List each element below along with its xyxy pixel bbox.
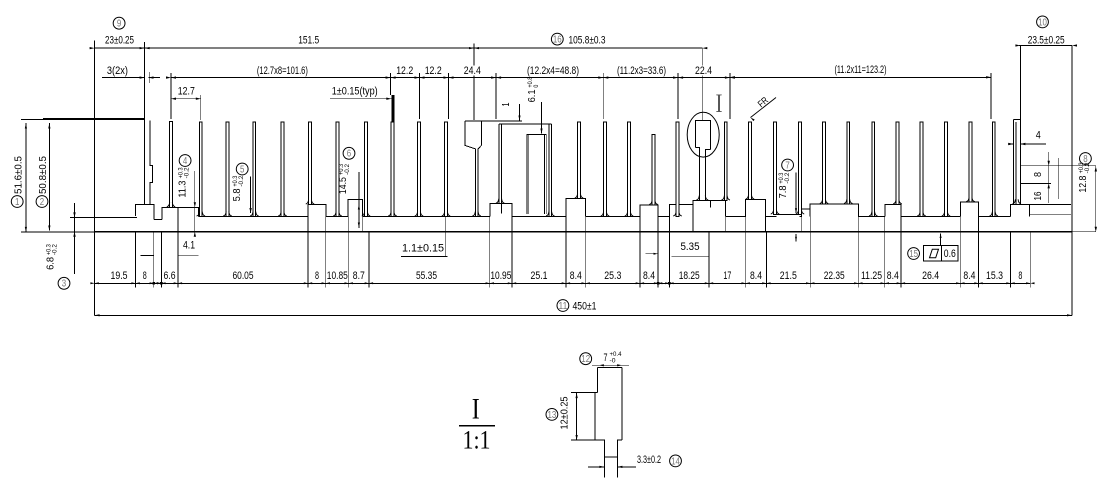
- svg-text:-0.2: -0.2: [238, 175, 245, 186]
- svg-text:10.95: 10.95: [490, 270, 511, 282]
- svg-text:24.4: 24.4: [464, 65, 481, 77]
- svg-text:-0: -0: [610, 357, 616, 364]
- svg-text:15: 15: [909, 249, 918, 260]
- svg-text:55.35: 55.35: [416, 270, 437, 282]
- svg-text:8.4: 8.4: [570, 270, 582, 282]
- svg-text:11.25: 11.25: [861, 270, 882, 282]
- svg-text:10.85: 10.85: [327, 270, 348, 282]
- svg-text:-0.2: -0.2: [344, 163, 351, 174]
- svg-text:I: I: [716, 89, 723, 118]
- svg-text:-0.2: -0.2: [51, 244, 58, 255]
- svg-text:-0.2: -0.2: [784, 172, 791, 183]
- svg-text:18.25: 18.25: [679, 270, 700, 282]
- svg-text:22.35: 22.35: [824, 270, 845, 282]
- svg-text:151.5: 151.5: [298, 34, 319, 46]
- svg-text:(12.7x8=101.6): (12.7x8=101.6): [257, 65, 308, 77]
- svg-text:3: 3: [62, 279, 67, 290]
- svg-text:8: 8: [1032, 172, 1044, 177]
- svg-text:I: I: [472, 393, 480, 426]
- svg-text:16: 16: [553, 35, 562, 46]
- svg-text:8.4: 8.4: [963, 270, 975, 282]
- svg-text:3.3±0.2: 3.3±0.2: [637, 454, 661, 466]
- svg-text:13: 13: [548, 410, 557, 421]
- svg-text:51.6±0.5: 51.6±0.5: [13, 156, 25, 194]
- svg-text:11: 11: [559, 301, 568, 312]
- svg-text:16: 16: [1032, 191, 1044, 200]
- svg-text:3(2x): 3(2x): [107, 65, 128, 77]
- svg-text:4: 4: [1036, 130, 1041, 142]
- svg-text:12.8: 12.8: [1077, 175, 1089, 192]
- svg-text:8: 8: [1018, 270, 1022, 282]
- svg-text:17: 17: [723, 270, 731, 282]
- svg-text:5.8: 5.8: [231, 188, 243, 201]
- svg-text:12.2: 12.2: [425, 65, 442, 77]
- svg-text:(12.2x4=48.8): (12.2x4=48.8): [527, 65, 579, 77]
- svg-text:5.35: 5.35: [681, 241, 700, 253]
- svg-text:1: 1: [15, 197, 19, 208]
- svg-text:60.05: 60.05: [233, 270, 254, 282]
- svg-text:6.8: 6.8: [45, 257, 57, 270]
- svg-text:50.8±0.5: 50.8±0.5: [37, 156, 49, 194]
- svg-text:8: 8: [315, 270, 319, 282]
- svg-text:6.6: 6.6: [164, 270, 176, 282]
- svg-text:7: 7: [785, 160, 789, 171]
- svg-text:1.1±0.15: 1.1±0.15: [402, 243, 444, 255]
- svg-text:7: 7: [604, 352, 608, 364]
- svg-text:23±0.25: 23±0.25: [105, 34, 134, 46]
- svg-text:0.6: 0.6: [944, 248, 956, 260]
- svg-text:8.4: 8.4: [750, 270, 762, 282]
- svg-text:7.8: 7.8: [777, 185, 789, 198]
- svg-text:25.3: 25.3: [604, 270, 621, 282]
- svg-text:105.8±0.3: 105.8±0.3: [569, 35, 606, 47]
- svg-text:11.3: 11.3: [177, 180, 189, 197]
- svg-text:4.1: 4.1: [183, 240, 195, 252]
- svg-text:12±0.25: 12±0.25: [559, 396, 571, 429]
- svg-text:10: 10: [1038, 17, 1047, 28]
- svg-text:(11.2x11=123.2): (11.2x11=123.2): [835, 64, 887, 76]
- svg-text:6.1: 6.1: [526, 89, 538, 102]
- svg-text:-0.2: -0.2: [1084, 162, 1091, 173]
- svg-text:8.4: 8.4: [887, 270, 899, 282]
- svg-text:19.5: 19.5: [111, 270, 128, 282]
- svg-text:25.1: 25.1: [531, 270, 548, 282]
- svg-text:12.7: 12.7: [178, 85, 195, 97]
- svg-text:(11.2x3=33.6): (11.2x3=33.6): [617, 65, 666, 77]
- svg-text:21.5: 21.5: [780, 270, 797, 282]
- svg-text:8.4: 8.4: [643, 270, 655, 282]
- svg-text:0: 0: [533, 84, 540, 87]
- svg-text:12: 12: [581, 354, 590, 365]
- svg-text:22.4: 22.4: [695, 65, 712, 77]
- svg-text:6: 6: [347, 149, 352, 160]
- svg-text:8: 8: [143, 270, 147, 282]
- svg-text:5: 5: [240, 164, 245, 175]
- svg-text:1±0.15(typ): 1±0.15(typ): [332, 85, 378, 97]
- svg-text:1: 1: [500, 102, 512, 106]
- svg-text:14.5: 14.5: [337, 177, 349, 194]
- svg-text:1:1: 1:1: [463, 426, 491, 455]
- svg-text:15.3: 15.3: [986, 270, 1003, 282]
- svg-text:26.4: 26.4: [922, 270, 939, 282]
- svg-text:2: 2: [40, 197, 44, 208]
- svg-text:9: 9: [117, 19, 121, 30]
- svg-text:12.2: 12.2: [396, 65, 413, 77]
- svg-text:14: 14: [671, 456, 680, 467]
- svg-text:450±1: 450±1: [573, 301, 597, 313]
- svg-text:4: 4: [183, 156, 188, 167]
- svg-text:-0.2: -0.2: [183, 167, 190, 178]
- svg-text:23.5±0.25: 23.5±0.25: [1028, 34, 1065, 46]
- svg-text:8.7: 8.7: [353, 270, 365, 282]
